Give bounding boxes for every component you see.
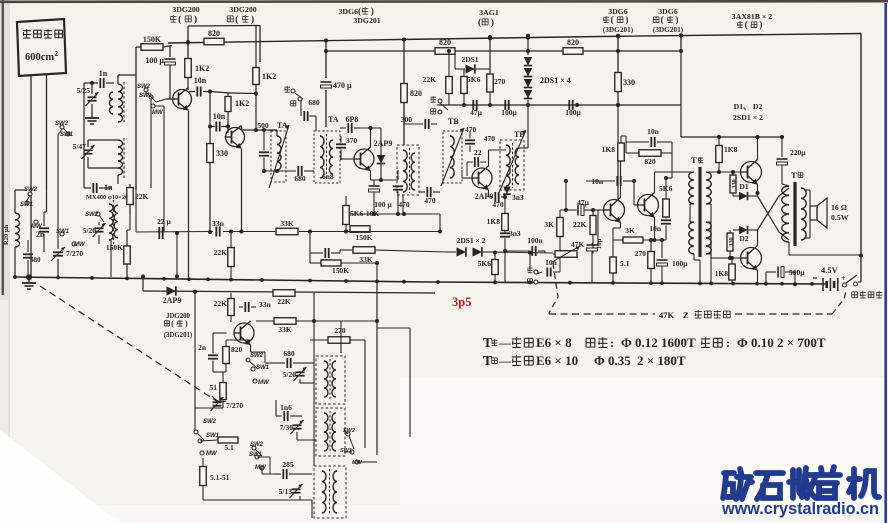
svg-text:3K: 3K [625,226,635,235]
svg-text:150K: 150K [106,243,123,252]
variable capacitor 5/20 conv [296,371,305,373]
switch lever lines misc [249,361,257,368]
svg-text:22K: 22K [277,297,291,306]
svg-text:3DG6: 3DG6 [339,7,359,16]
wire rail x404 from bus [403,40,405,146]
svg-text:0.5W: 0.5W [831,213,849,222]
resistor 1K8 output bias top [716,146,723,163]
svg-text:150K: 150K [355,233,372,242]
svg-text:100n: 100n [527,236,543,245]
capacitor 22u AGC [158,227,160,239]
svg-text:270: 270 [334,326,346,335]
wire rail to output [680,51,682,137]
wire x151 riser [150,99,152,188]
svg-text:820: 820 [567,38,579,47]
svg-text:22K: 22K [135,192,149,201]
capacitor 470u decoupling [321,81,332,83]
svg-text:T: T [791,170,797,180]
resistor 47K volume pot [555,251,577,258]
label power switch [852,292,858,298]
transformer TA first IF [271,131,286,182]
svg-text:10µ: 10µ [596,239,603,250]
svg-text:T: T [483,353,492,368]
wire rail x618 [617,36,619,105]
svg-text:): ) [625,15,628,25]
transformer Tout [793,182,796,246]
svg-text:5.1: 5.1 [224,443,234,452]
switch SW2 osc [96,212,100,216]
svg-text:SW2: SW2 [137,84,151,90]
transformer LW3 [314,466,346,518]
loop antenna box 方框天线 600cm2 [17,19,66,76]
resistor 5.1 e [610,257,617,273]
resistor 1K2 V2 base [225,97,231,112]
wire second bus [326,50,681,52]
paper lighter bottom band [400,378,886,523]
svg-text:1K8: 1K8 [715,269,729,278]
svg-text:3n3: 3n3 [509,229,521,238]
capacitor 680 conv [286,358,288,368]
wire x164 riser [163,106,165,231]
wire rail x188 [187,26,189,56]
svg-text:2SD1 × 2: 2SD1 × 2 [733,113,763,122]
svg-text:MW: MW [352,460,363,466]
wire V2 base [227,127,229,134]
svg-text:22K: 22K [423,75,437,84]
svg-text:5K6: 5K6 [467,75,481,84]
svg-text:(: ( [745,20,748,30]
svg-text:(: ( [178,14,181,25]
transformer LW2 [316,408,345,456]
svg-text:SW2: SW2 [55,121,69,127]
wire V2 emitter down [241,149,243,232]
wire cluster links [88,139,118,141]
switch SW2 conv [246,358,250,362]
resistor 1K2 stage2 bias upper [253,68,260,85]
wire top bus right corner down [860,34,862,256]
diode 3n3 detector [503,187,511,195]
diode 2AP9 detector [377,155,386,164]
switch SW1 low [198,439,202,443]
resistor 22K bias [228,248,235,267]
wire conv emitter branch [251,351,266,353]
svg-text:MW: MW [255,465,267,471]
svg-text:7/270: 7/270 [66,249,83,258]
wire main ground bus [14,277,828,284]
variable capacitor 5/25 [88,96,97,98]
wire D1 collector to rail [757,137,759,160]
switch SW1 right [350,450,354,454]
wire V4 emitter down [488,190,490,197]
capacitor 470 TB bottom [426,187,428,197]
transistor V7 converter [234,323,254,343]
svg-text:1n6: 1n6 [280,403,292,412]
transformer TB3 [500,140,524,190]
svg-text:5/13: 5/13 [279,487,293,496]
svg-text:Φ 0.12 1600T: Φ 0.12 1600T [621,335,696,350]
svg-text:330: 330 [216,149,228,158]
transistor V6 driver [638,195,659,216]
resistor 51 conv [220,383,227,400]
wire output top bus [681,136,782,138]
svg-text:SW1: SW1 [340,448,352,454]
wire det chain x505 [504,197,506,214]
wire conv vertical x314 x341 [313,293,315,466]
resistor 33K audio [353,247,375,254]
svg-text:16 Ω: 16 Ω [831,203,847,212]
wire TB bottom to row [402,195,404,214]
wire conv vertical x410 [409,328,411,437]
switch SW1 conv [251,367,255,371]
svg-text:2: 2 [55,50,59,58]
capacitor 500 tank [259,151,269,153]
svg-text:MW: MW [74,242,86,248]
wire det to volume pot [492,252,553,253]
svg-text:47K: 47K [659,310,675,320]
capacitor 10n fb [650,137,652,147]
wire V6 base [633,181,635,205]
svg-text:5.1: 5.1 [620,259,630,268]
svg-text:): ) [491,17,494,28]
svg-text:—: — [498,336,512,350]
svg-text:3p5: 3p5 [452,295,471,309]
variable capacitor 7/270 conv [213,401,222,403]
coil T2 with core [118,140,123,175]
svg-text:1n: 1n [99,69,108,78]
wire Tout bottom to rail [788,242,790,255]
svg-text:7/270: 7/270 [226,401,243,410]
wire Tin secondary top to D1 base [706,171,741,173]
resistor 150K audio lower [321,260,341,266]
capacitor 10n det out [546,268,548,277]
resistor 33K AGC [276,228,298,235]
switch SW1 osc [60,232,64,236]
resistor 1K2 V1 collector [185,59,192,78]
svg-text:820: 820 [231,345,243,354]
wire V2 collector to TA tank [241,126,243,131]
resistor 820 top-left inline [204,38,224,45]
svg-text:(: ( [478,17,481,28]
svg-text:470 µ: 470 µ [333,81,352,90]
resistor 1K8 output bias bottom [729,264,736,280]
wire V1 emitter down [188,111,190,277]
resistor 330 AF rail [615,73,622,92]
svg-text:SW1: SW1 [256,365,270,371]
svg-text:100µ: 100µ [501,108,517,117]
svg-text:(: ( [661,15,664,25]
switch SW2 right [346,432,350,436]
wire Tin primary links [690,203,694,205]
svg-text:1K8: 1K8 [724,145,738,154]
svg-text:): ) [185,318,188,328]
svg-text:E6 × 8: E6 × 8 [536,335,572,350]
svg-text:330: 330 [728,237,735,246]
svg-text:3DG200: 3DG200 [172,5,199,14]
resistor 270 IF2 [487,74,494,92]
svg-text:(: ( [611,15,614,25]
transistor D1 2SD1 [741,162,762,183]
capacitor 100u mid [504,100,506,110]
svg-text:22K: 22K [214,299,228,308]
wire mid distribution line [437,104,681,106]
svg-text:(3DG201): (3DG201) [603,25,634,34]
svg-text:1K2: 1K2 [262,72,276,81]
svg-text:6n8: 6n8 [322,172,334,181]
resistor 820 vertical [401,84,408,103]
capacitor 22u audio coupling [324,248,326,258]
resistor 5K6 IF [461,77,468,94]
capacitor 100u AF out [657,259,668,261]
coil MX400 oscillator with core [109,204,113,240]
capacitor 3n3 [500,232,510,234]
svg-text:2DS1: 2DS1 [461,55,478,64]
switch MW right [355,460,359,464]
svg-text:10n: 10n [213,112,226,121]
coil R20uH antenna [15,213,20,247]
svg-text:2AP9: 2AP9 [374,139,393,148]
svg-text:4.5V: 4.5V [821,265,839,275]
capacitor 10n emitter fb [661,219,671,221]
svg-text:2 × 180T: 2 × 180T [637,353,686,368]
svg-text:D2: D2 [739,234,748,243]
variable capacitor 5/13 [292,488,301,490]
svg-text:470: 470 [484,134,496,143]
capacitor 285 [282,469,284,479]
switch short/long IF [291,89,295,93]
variable capacitor 5/20 osc [95,227,104,229]
svg-text::: : [726,336,730,350]
svg-text:www.crystalradio.cn: www.crystalradio.cn [721,500,879,518]
capacitor 2n conv [208,354,218,356]
wire switch links bottom cluster [200,440,218,441]
wire 10n feed branch [565,181,567,210]
svg-text:): ) [675,15,678,25]
wire osc 22K bottom [129,215,131,230]
svg-text:D1: D1 [739,182,748,191]
svg-text:500: 500 [257,121,269,130]
transistor V3 2AP9 IF [354,149,374,169]
svg-text:470: 470 [465,125,477,134]
svg-text:1K8: 1K8 [602,145,616,154]
page curl highlight bottom-left [0,430,120,523]
svg-text:150K: 150K [143,35,162,44]
wire det row y214 [346,213,440,215]
resistor 330 lower rotated [727,233,733,251]
svg-text:3DG201: 3DG201 [353,16,380,25]
svg-text:285: 285 [282,460,294,469]
svg-text:R20 µh: R20 µh [3,224,10,245]
transistor V1 3DG200 [173,90,192,109]
svg-text:33n: 33n [259,300,272,309]
svg-text:150K: 150K [332,266,349,275]
wire V4 collector to TB3 [488,150,490,166]
resistor 5.1-51 [200,467,207,486]
svg-text:470: 470 [398,200,410,209]
svg-text:5/20: 5/20 [283,370,297,379]
wire 150K left drop [135,47,137,190]
svg-text:5K6-10K: 5K6-10K [350,209,379,218]
wire x58 switch to tuning [57,135,59,244]
switch SW2/SW1 lower-left antenna [60,125,64,129]
transistor D2 2SD1 [741,248,762,269]
wire diode chain to TB3 [527,105,529,148]
svg-text:47µ: 47µ [577,198,590,207]
diode chain 2DS1 x4 [527,36,529,56]
capacitor 33n conv [244,302,246,312]
transistor V5 AF1 [604,200,625,221]
wire antenna right lead [46,75,48,191]
svg-text:1K2: 1K2 [195,64,209,73]
wire antenna left lead [30,75,32,277]
svg-text:100µ: 100µ [672,259,688,268]
capacitor 47u [472,100,474,110]
svg-text:330: 330 [623,78,635,87]
capacitor 10n driver in [616,176,618,186]
resistor 5.1 [218,437,238,443]
capacitor 370 [336,143,346,145]
svg-text:5K6: 5K6 [478,259,492,268]
resistor 330 V2 emitter [207,144,214,163]
dashed volume switch linkage [549,263,558,314]
svg-text:): ) [251,14,254,25]
dashed linkage right part [735,313,832,315]
capacitor 47u AF coupling [577,205,579,216]
resistor 3K driver [623,237,643,243]
svg-text:680: 680 [30,256,41,264]
svg-text:MX400 φ10×200: MX400 φ10×200 [86,194,131,201]
resistor 33K conv [274,318,296,325]
svg-text:6P8: 6P8 [346,115,359,124]
capacitor 100n [531,246,533,256]
svg-text:680: 680 [283,349,295,358]
svg-text:100 µ: 100 µ [145,56,164,65]
svg-text:T: T [483,335,492,350]
svg-text:(: ( [171,318,174,328]
dashed tuning gang linkage left [40,286,218,402]
svg-text:2n: 2n [198,343,207,352]
svg-text:7/30: 7/30 [280,423,294,432]
svg-text:470: 470 [492,200,504,209]
svg-text:SW1: SW1 [139,93,153,99]
svg-text:TA: TA [328,115,339,124]
capacitor 2n [39,227,49,229]
svg-text:TB: TB [448,117,459,126]
svg-text:3n3: 3n3 [512,193,524,202]
switch MW osc2 [260,466,264,470]
wire 22u branch to bus [176,233,178,276]
right page edge blue line [884,3,887,523]
svg-text:300: 300 [401,115,413,124]
capacitor 1n MX400 [92,183,94,193]
switch SW2/SW1 far left [28,192,32,196]
svg-text:680: 680 [308,98,320,107]
resistor 270 conv out [328,337,350,344]
resistor 820 second bus right inline [563,48,583,55]
resistor 330 upper rotated [730,175,736,193]
resistor 1K8 driver base [618,143,625,161]
svg-text:+: + [841,274,846,283]
wire detector row with 2AP9 [143,291,435,293]
switch SW2 low [194,430,198,434]
diode D1 [739,192,748,201]
svg-text:3DG200: 3DG200 [229,5,256,14]
svg-text:TB: TB [514,130,525,139]
svg-text:22: 22 [474,148,482,157]
wire MW to x164 [155,105,164,107]
capacitor 300 [424,119,426,129]
svg-text:1K8: 1K8 [487,217,501,226]
wire V1 out node row [210,92,230,94]
resistor 820 conv [223,347,230,364]
capacitor 680 [23,253,33,255]
svg-text:MW: MW [206,451,218,457]
svg-text:T: T [691,155,697,165]
svg-text:47µ: 47µ [470,108,483,117]
switch IF in [438,99,442,103]
capacitor 10u electrolytic [587,244,598,246]
svg-text:5.1-51: 5.1-51 [210,473,230,482]
svg-text:3AG1: 3AG1 [479,8,499,17]
resistor 1K8 det [502,214,509,231]
svg-text:820: 820 [644,157,656,166]
ground main left [26,274,32,280]
resistor 150K top-left [141,44,163,51]
variable capacitor 7/30 [293,424,302,426]
svg-text:33n: 33n [212,219,225,228]
svg-text:2AP9: 2AP9 [163,296,182,305]
wire AGC row [136,231,213,234]
wire V3 collector to 6P8 row [370,128,372,148]
capacitor 6P8 [347,123,349,133]
capacitor 100u AF bypass [369,185,380,187]
svg-text:(: ( [235,14,238,25]
variable capacitor 5/47 [84,149,93,151]
wire conv vertical x195 [194,293,196,430]
svg-text:): ) [759,20,762,30]
coil RF transformer T1 with core [118,84,123,122]
transformer TB osc out [397,145,419,195]
wire V6 emitter down [654,217,656,240]
resistor 22K osc [127,188,134,205]
capacitor 100u right [568,100,570,110]
svg-text:100 µ: 100 µ [374,200,392,209]
svg-text:270: 270 [635,249,647,258]
svg-text:SW2: SW2 [250,442,264,448]
wire top stub bus A [188,25,260,28]
resistor 22K IF [446,77,453,94]
diode D2 [739,226,748,235]
transistor V2 3DG200 [226,128,245,147]
speaker [810,206,817,220]
wire V3 emitter down [370,171,372,181]
resistor 3K AF [557,218,564,237]
cross-coupling wires X [758,196,780,232]
svg-text::: : [610,336,614,350]
svg-text:33K: 33K [278,325,292,334]
capacitor 1n top [99,78,101,88]
left border line [2,0,4,295]
svg-text:Φ 0.35: Φ 0.35 [594,353,631,368]
svg-text:Φ 0.10 2 × 700T: Φ 0.10 2 × 700T [737,335,826,350]
diode 2AP9 AGC [167,286,176,295]
resistor 5K6-10K [343,206,350,225]
switch MW conv [253,379,257,383]
wire af row junction [193,290,197,294]
wire rail x326 from bus [325,41,327,79]
switch SW2/SW1 band upper [144,88,148,92]
svg-text:SW2: SW2 [85,212,99,218]
variable capacitor 7/270 main tuning [53,251,63,253]
